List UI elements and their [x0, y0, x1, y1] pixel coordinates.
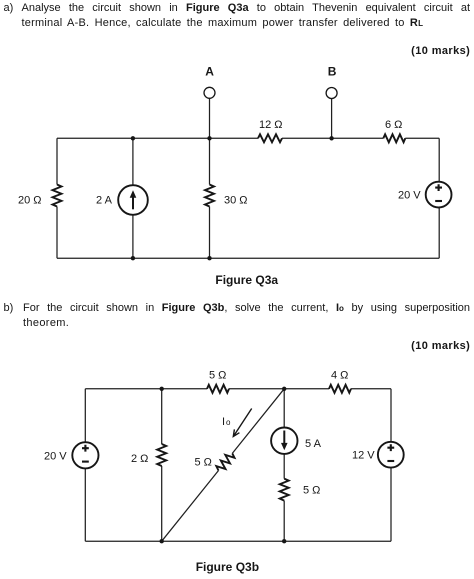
resistor 5 ohm (Q3b middle, vertical)	[280, 479, 289, 501]
question b) label	[4, 301, 14, 316]
wire: Q3a top rail middle segment (between 12ohm and 6ohm)	[282, 137, 383, 139]
wire: Q3a right branch	[438, 138, 440, 258]
svg-text:I: I	[222, 416, 225, 428]
wire: Q3b right branch with 12V	[390, 389, 392, 541]
wire: Q3b top rail left segment	[85, 388, 207, 390]
wire: Q3a 30 ohm branch	[209, 138, 211, 258]
wire: Q3a left branch (above/below 20 ohm)	[56, 138, 58, 258]
terminal A	[204, 87, 215, 98]
node: Q3b top junction at 5A branch	[282, 387, 286, 391]
node: Q3a bottom junction at 2A branch	[131, 256, 135, 260]
resistor 20 ohm (left, vertical)	[53, 185, 62, 207]
current arrow Io	[233, 409, 251, 437]
question b) text line 2	[23, 316, 474, 331]
(10 marks) b	[411, 339, 470, 354]
svg-text:30 Ω: 30 Ω	[224, 195, 248, 207]
svg-text:20 V: 20 V	[44, 451, 67, 463]
svg-text:A: A	[205, 64, 214, 78]
node: Q3a top junction at B branch	[329, 136, 333, 140]
svg-text:4 Ω: 4 Ω	[331, 370, 348, 382]
current source 5 A	[271, 428, 297, 454]
wire: Q3a top rail right segment	[405, 137, 439, 139]
node: Q3a top junction at 2A branch	[131, 136, 135, 140]
Figure Q3b caption	[196, 560, 259, 575]
wire: Q3b left branch with 20V	[84, 389, 86, 541]
node: Q3b bottom junction at 2 ohm / diagonal	[160, 539, 164, 543]
terminal B	[326, 88, 337, 99]
wire: Q3b middle branch (5A + 5 ohm)	[283, 389, 285, 541]
svg-text:12 V: 12 V	[352, 450, 375, 462]
voltage source 12 V	[378, 442, 404, 468]
svg-text:5 Ω: 5 Ω	[195, 457, 212, 469]
resistor 5 ohm (diagonal)	[216, 453, 234, 470]
voltage source 20 V (Q3a)	[426, 182, 452, 208]
wire: Q3a 2A source branch	[132, 138, 134, 258]
current source 2 A	[118, 185, 148, 215]
wire: diagonal upper segment	[232, 389, 284, 454]
node: Q3a top junction at A/30ohm branch	[207, 136, 211, 140]
question a) label	[4, 1, 14, 16]
wire: Q3a bottom rail	[57, 257, 439, 259]
svg-text:2 Ω: 2 Ω	[131, 453, 148, 465]
wire: terminal A lead	[209, 98, 211, 138]
svg-text:5 A: 5 A	[305, 438, 322, 450]
resistor 30 ohm (middle, vertical)	[205, 185, 214, 207]
node: Q3a bottom junction at 30ohm branch	[207, 256, 211, 260]
wire: Q3b bottom rail	[85, 540, 391, 542]
voltage source 20 V (Q3b)	[72, 442, 98, 468]
wire: Q3b top rail right segment	[351, 388, 391, 390]
node: Q3b top junction at 2 ohm branch	[160, 387, 164, 391]
svg-text:5 Ω: 5 Ω	[209, 370, 226, 382]
svg-text:5 Ω: 5 Ω	[303, 485, 320, 497]
svg-text:20 V: 20 V	[398, 190, 421, 202]
resistor 12 ohm (top, horizontal)	[258, 134, 282, 142]
question b) text line 1	[23, 301, 470, 316]
wire: Q3b 2 ohm branch	[161, 389, 163, 541]
resistor 5 ohm (Q3b top, horizontal)	[207, 385, 229, 393]
wire: diagonal lower segment	[162, 471, 219, 542]
svg-text:20 Ω: 20 Ω	[18, 195, 42, 207]
node: Q3b bottom junction at 5 ohm branch	[282, 539, 286, 543]
question a) text line 1	[22, 1, 471, 16]
question a) text line 2	[22, 16, 474, 31]
resistor 6 ohm (top right, horizontal)	[383, 134, 405, 142]
svg-text:6 Ω: 6 Ω	[385, 119, 402, 131]
(10 marks) a	[411, 44, 470, 59]
wire: Q3b top rail middle segment	[229, 388, 329, 390]
wire: Q3a top rail left segment	[57, 137, 258, 139]
resistor 4 ohm (Q3b top right, horizontal)	[329, 385, 351, 393]
svg-text:o: o	[226, 418, 231, 427]
resistor 2 ohm (vertical)	[157, 444, 166, 466]
Figure Q3a caption	[215, 273, 278, 288]
svg-text:12 Ω: 12 Ω	[259, 119, 283, 131]
svg-text:2 A: 2 A	[96, 195, 113, 207]
wire: terminal B lead	[331, 99, 333, 139]
svg-text:B: B	[328, 64, 337, 78]
